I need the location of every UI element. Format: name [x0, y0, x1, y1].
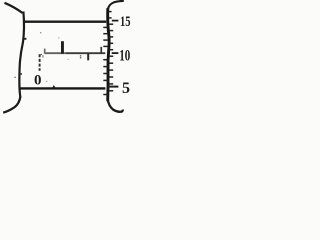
long graduation dash at 5	[108, 86, 119, 88]
svg-text:0: 0	[34, 72, 42, 88]
main scale mm tick above datum	[61, 41, 64, 54]
scan speck 3	[46, 81, 47, 82]
thimble right tick y24.2	[109, 23, 113, 25]
small nub on left edge upper	[24, 38, 27, 40]
sleeve top-left diagonal edge	[5, 3, 23, 13]
thimble right tick y63.2	[109, 62, 113, 64]
thimble left tick y73.5	[103, 73, 108, 75]
thimble bottom curved edge	[108, 99, 123, 112]
dashed zero graduation tick	[39, 54, 41, 71]
thimble left tick y33.7	[103, 33, 108, 35]
thimble right tick y30.6	[109, 30, 113, 32]
thimble vertical edge	[108, 8, 109, 101]
svg-text:15: 15	[120, 14, 131, 30]
thimble right tick y49.7	[109, 49, 113, 51]
half-mm tick below datum	[87, 53, 89, 60]
thimble right tick y17.9	[109, 17, 112, 19]
thimble left tick y94.5	[103, 94, 108, 96]
thimble right tick y77.0	[109, 76, 113, 78]
small blob below hook	[42, 55, 43, 57]
long graduation dash at 10	[112, 52, 119, 54]
thimble left tick y66.6	[103, 66, 108, 68]
svg-text:5: 5	[122, 80, 130, 97]
scan speck 5	[68, 59, 69, 60]
sleeve left vertical edge	[19, 12, 24, 98]
thimble right tick y56.2	[109, 55, 113, 57]
sleeve datum line left (faint)	[45, 52, 66, 54]
sleeve top edge line	[24, 21, 107, 23]
thimble left tick y46.4	[103, 45, 108, 47]
sleeve bottom-left curved edge	[3, 97, 20, 113]
thimble left tick y80.4	[103, 79, 108, 81]
zero tick top hook	[40, 53, 42, 56]
thimble right tick y70.1	[109, 69, 113, 71]
sleeve bottom edge line	[20, 87, 106, 89]
thimble left tick y40.1	[103, 39, 108, 41]
thimble right tick y90.8	[109, 90, 113, 92]
thimble left tick y59.7	[103, 59, 108, 61]
scan speck 4	[58, 37, 59, 38]
paper background	[0, 0, 137, 119]
thimble right tick y36.9	[109, 36, 113, 38]
small arrow tick on bottom line	[52, 85, 56, 88]
svg-text:10: 10	[119, 47, 130, 64]
small vertical bar left of thimble	[100, 47, 102, 53]
sleeve datum line right	[66, 52, 105, 54]
scan speck 1	[40, 32, 41, 33]
thimble right tick y83.9	[109, 83, 113, 85]
scan speck 2	[14, 77, 16, 78]
thimble right tick y43.3	[109, 42, 113, 44]
thimble right tick y11.6	[109, 11, 112, 13]
small nub on left edge lower	[20, 73, 22, 75]
thimble top curved edge	[108, 1, 124, 10]
long graduation dash at 15	[112, 20, 119, 22]
datum line left hook tick	[44, 49, 46, 54]
small dashed tick below datum at x80	[80, 55, 81, 56]
thimble left tick y27.4	[103, 26, 108, 28]
